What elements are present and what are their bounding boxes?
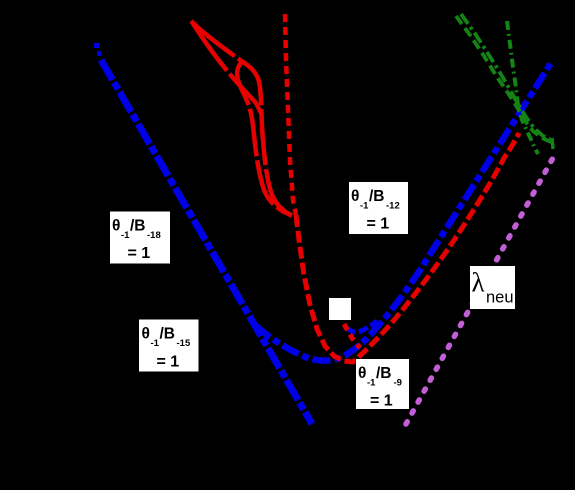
label box theta-1/B-9 = 1 [356,359,409,410]
svg-text:-15: -15 [177,338,191,349]
svg-text:-12: -12 [386,201,400,212]
green dash-dot curve c (right near-vertical) [507,21,538,154]
green dashed curve a (left of bundle) [456,16,555,144]
label box theta-1/B-12 = 1 [349,182,408,234]
svg-text:-9: -9 [394,378,402,389]
label box theta-1/B-15 = 1 [139,320,199,372]
red fold curve B (lower strand from start) [192,22,261,113]
svg-text:/B: /B [376,365,392,382]
svg-text:θ: θ [351,188,359,205]
svg-text:= 1: = 1 [370,393,393,410]
blue curved line (theta/B_-15 boundary, V-shaped, rising to top right) [256,63,551,361]
red parabola bottom and right branch [296,133,519,362]
red fold curve C (inner return strand) [237,61,292,215]
svg-text:/B: /B [369,188,385,205]
label box lambda_neu [470,266,515,309]
svg-text:-1: -1 [121,230,130,241]
svg-text:= 1: = 1 [128,245,151,262]
svg-text:/B: /B [160,326,176,343]
svg-text:θ: θ [112,218,120,235]
svg-text:/B: /B [130,218,146,235]
svg-text:θ: θ [142,326,150,343]
blue dashed straight line (theta/B_-18 boundary) [94,43,99,48]
svg-text:neu: neu [486,289,514,307]
small empty white box [329,298,351,320]
red short connector dashes near swallowtail [344,324,360,348]
magenta dashed line (lambda_neu) [406,156,554,424]
green end tick [552,138,553,149]
svg-text:-18: -18 [147,230,161,241]
svg-text:-1: -1 [367,378,376,389]
red vertical dashed line (left branch of red boundary) [285,14,296,215]
svg-text:λ: λ [472,268,485,298]
red fold curve A (outer upper strand) [191,21,294,217]
svg-text:-1: -1 [360,201,369,212]
svg-text:-1: -1 [151,338,160,349]
svg-text:= 1: = 1 [367,216,390,233]
label box theta-1/B-18 = 1 [110,212,170,264]
blue small hook curve near swallowtail [347,321,377,332]
svg-text:θ: θ [358,365,366,382]
svg-text:= 1: = 1 [157,354,180,371]
green dash-dot curve b (middle of bundle) [461,14,550,139]
